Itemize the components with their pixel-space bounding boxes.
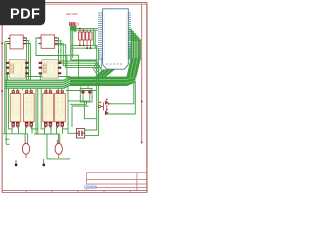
svg-text:PDF: PDF — [10, 7, 40, 23]
svg-text:LED-MAT: LED-MAT — [66, 12, 78, 16]
svg-text:CadSoft: CadSoft — [84, 185, 97, 189]
